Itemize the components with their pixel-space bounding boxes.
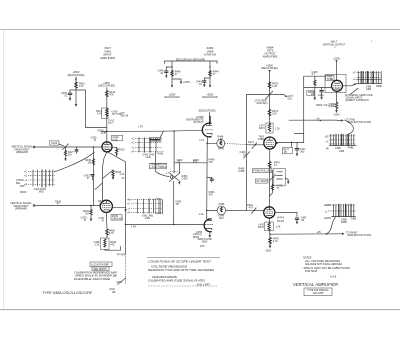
comb drop diagonal (160, 131, 164, 137)
resistor R470 (268, 82, 279, 88)
svg-text:1.2K: 1.2K (276, 226, 281, 229)
svg-text:4.7K: 4.7K (97, 113, 102, 116)
grid wire V454 (126, 223, 204, 225)
delay network comb 1 (131, 137, 164, 159)
svg-text:47X: 47X (193, 160, 198, 163)
ground arrow -150V (265, 246, 272, 253)
grid wire into V473 (248, 144, 264, 146)
svg-text:JUN 1957: JUN 1957 (196, 283, 211, 286)
resistor R410 (75, 82, 86, 88)
input terminal lower (33, 205, 35, 207)
svg-text:6CL6: 6CL6 (277, 219, 285, 223)
plate load below V434 (106, 212, 116, 238)
svg-text:C454: C454 (116, 281, 122, 284)
shield box V483 (325, 75, 346, 93)
damping box L438 (94, 238, 121, 250)
svg-text:2.2K: 2.2K (272, 85, 277, 88)
resistor R440 (171, 71, 181, 77)
deflection comb lower (323, 204, 356, 224)
grid trimmer arrow V474 (247, 204, 256, 214)
svg-text:SN 5XXX: SN 5XXX (193, 121, 204, 124)
header tube label V458 (204, 46, 217, 56)
node +350V decoupled feed B (98, 82, 115, 88)
node dot branch right (209, 66, 210, 67)
branch left ground spur (172, 79, 190, 84)
input attenuator comb (24, 170, 55, 193)
svg-text:47: 47 (87, 177, 90, 180)
svg-text:+C: +C (24, 170, 27, 173)
svg-text:-150V: -150V (333, 113, 340, 116)
svg-text:+R: +R (127, 211, 130, 214)
svg-text:READINGS THAT ARE WITH TIME CE: READINGS THAT ARE WITH TIME CENTERED (148, 269, 214, 272)
comb 1 output drop (156, 152, 169, 176)
svg-text:47: 47 (94, 139, 97, 142)
svg-text:R442: R442 (157, 153, 163, 156)
wire feed B down to V433 (106, 88, 108, 142)
deflection wire lower (270, 231, 345, 235)
svg-text:47: 47 (84, 219, 87, 222)
svg-text:4X: 4X (121, 177, 124, 180)
label R449b (209, 159, 215, 165)
capacitor C409 (61, 90, 72, 98)
triode V454 half tube (204, 218, 213, 231)
branch right arrow end (209, 85, 211, 88)
svg-text:R471: R471 (248, 141, 254, 144)
header tube label V434 (100, 46, 115, 60)
trimmer network R475 (270, 171, 284, 197)
svg-text:+C: +C (325, 140, 328, 143)
svg-text:AMPLIFIER: AMPLIFIER (100, 56, 115, 60)
peaking coil box L476 (258, 222, 281, 231)
svg-text:47K: 47K (209, 161, 214, 164)
junction deflection lower (269, 231, 271, 246)
svg-text:DECOUPLED: DECOUPLED (202, 96, 217, 99)
svg-text:GAIN ADJ: GAIN ADJ (112, 218, 124, 221)
trimmer arrow feed C (255, 91, 273, 105)
svg-text:+A: +A (316, 118, 319, 121)
gain pot R456 (207, 203, 226, 220)
ground arrow feed A (75, 104, 78, 107)
wire to capacitor C409 (70, 89, 76, 91)
node +225V plate cap V483 (333, 57, 340, 80)
svg-text:+L: +L (127, 208, 130, 211)
svg-text:PUSH-PULL BAL: PUSH-PULL BAL (253, 170, 273, 173)
svg-text:-150V: -150V (265, 250, 272, 253)
svg-text:1M: 1M (68, 154, 71, 157)
svg-text:BAL: BAL (16, 182, 21, 185)
svg-text:C482: C482 (318, 94, 324, 97)
decoupling bracket (165, 58, 218, 63)
svg-text:LATER S/N: LATER S/N (204, 53, 217, 56)
svg-text:(DIRECT CONNECT): (DIRECT CONNECT) (346, 99, 370, 102)
cathode chain V473 to V474 (268, 149, 271, 207)
label C412 (108, 120, 114, 126)
svg-text:CONDITIONS OF SCOPE UNDER TEST: CONDITIONS OF SCOPE UNDER TEST (148, 260, 212, 263)
svg-text:47: 47 (101, 132, 104, 135)
junction grid V433 (93, 146, 95, 148)
boxed label gain adj (256, 179, 269, 183)
label R468 (238, 167, 244, 173)
triode V433 (102, 142, 112, 152)
label C456 (175, 201, 181, 207)
label V454 (193, 233, 200, 239)
svg-text:R476: R476 (258, 226, 264, 229)
svg-text:J486: J486 (366, 88, 372, 91)
plate coil L444 (209, 113, 210, 124)
svg-text:47K: 47K (209, 194, 214, 197)
svg-text:DEFLECTION PLATE: DEFLECTION PLATE (348, 234, 372, 237)
svg-text:+C: +C (353, 71, 356, 74)
svg-text:(PREAMP): (PREAMP) (15, 208, 27, 211)
svg-text:47K: 47K (109, 94, 114, 97)
rail to cathode wire (304, 86, 332, 88)
conditions block (147, 245, 220, 286)
interstage wire V444 to V454 (206, 143, 209, 219)
V433 interstage cluster (84, 152, 122, 200)
svg-text:LONG CABLE: LONG CABLE (151, 166, 167, 169)
svg-text:+R45X: +R45X (323, 217, 331, 220)
junction plate V473 (291, 142, 293, 144)
svg-text:.005: .005 (300, 150, 305, 153)
svg-text:R434: R434 (115, 171, 121, 174)
grid wire input line lower (35, 205, 101, 207)
svg-text:R486: R486 (341, 221, 347, 224)
plate wire V473 (275, 141, 303, 143)
input signal label lower (10, 202, 32, 211)
capacitor C450 spur (207, 178, 213, 183)
svg-text:J420: J420 (38, 190, 44, 193)
label +225V decoupled (164, 94, 179, 100)
delay network comb 2 (127, 199, 162, 220)
input signal label upper (11, 146, 33, 155)
svg-text:1 4A: 1 4A (131, 225, 136, 228)
wire crossover to V454 grid line (173, 182, 175, 225)
svg-text:R472: R472 (259, 127, 265, 130)
label this tube V473 (257, 135, 264, 141)
svg-text:TUBE: TUBE (327, 78, 334, 81)
label R426 (50, 141, 64, 146)
svg-text:(PREAMP): (PREAMP) (16, 151, 28, 154)
spur wire to crossover (178, 163, 180, 173)
svg-text:5-25: 5-25 (113, 138, 119, 141)
label net 12A (119, 173, 124, 180)
page left edge (3, 30, 5, 310)
peaking coil box L472 (259, 123, 280, 133)
wire branch cap riser (76, 90, 107, 128)
pentode V434 (100, 200, 112, 212)
svg-text:L442: L442 (146, 156, 152, 159)
svg-text:1 TA: 1 TA (138, 126, 143, 129)
svg-text:LOCATION REF: LOCATION REF (91, 263, 109, 266)
svg-text:+R: +R (24, 184, 27, 187)
svg-text:TYPE 545A OSCILLOSCOPE: TYPE 545A OSCILLOSCOPE (42, 291, 93, 295)
svg-text:TP 4XX: TP 4XX (117, 254, 126, 257)
junction V454 grid (173, 224, 175, 226)
label to the deflection plate (346, 118, 372, 124)
resistor R472 (268, 110, 279, 116)
svg-text:.01: .01 (160, 72, 164, 75)
rail trimmer C468 (239, 151, 249, 158)
svg-text:4.7K: 4.7K (273, 240, 278, 243)
svg-text:A.A.B: A.A.B (329, 276, 337, 279)
triode V444 half tube (202, 123, 213, 137)
junction grid bus (173, 130, 175, 132)
svg-text:+35: +35 (324, 135, 329, 138)
svg-text:47: 47 (102, 220, 105, 223)
label to right deflection plate (346, 231, 372, 237)
junction TP grid line (125, 224, 127, 226)
svg-text:R486: R486 (376, 85, 382, 88)
label C483 (312, 71, 318, 76)
svg-text:+C: +C (24, 175, 27, 178)
ground below C409 (69, 98, 72, 101)
plate wire V474 (275, 212, 297, 216)
header tube label V483 (323, 40, 373, 50)
gain pot R448 (207, 136, 225, 151)
svg-text:*: * (371, 40, 373, 44)
svg-text:1M: 1M (85, 213, 88, 216)
cathode network V434 (98, 208, 126, 223)
location reference boxes (90, 262, 112, 271)
svg-text:J486: J486 (351, 218, 357, 221)
test point TP433 (109, 254, 125, 291)
svg-text:JAN 1955: JAN 1955 (313, 292, 324, 295)
node +350V decoupled feed A (68, 71, 85, 81)
svg-text:+C: +C (131, 142, 134, 145)
grid resistor R429 (81, 206, 93, 223)
label V474 (277, 216, 285, 223)
cathode wire V444 down (206, 137, 208, 145)
dashed link pot to V473 grid (225, 143, 248, 144)
svg-text:(DECOUPLED): (DECOUPLED) (68, 74, 85, 77)
svg-text:.01: .01 (64, 95, 68, 98)
cathode resistor R433 (112, 147, 125, 156)
pentode V473 (264, 137, 279, 149)
svg-text:.01: .01 (198, 83, 202, 86)
node +350V decoupled feed C (261, 65, 278, 73)
spur to horiz amp (270, 95, 294, 101)
svg-text:+L: +L (24, 179, 27, 182)
decoupling branch right wire (209, 61, 211, 85)
label external graticule (346, 88, 374, 102)
capacitor C487 (295, 216, 307, 224)
svg-text:L451: L451 (145, 217, 151, 220)
svg-text:1.2K: 1.2K (94, 243, 99, 246)
svg-text:(DECOUPLED): (DECOUPLED) (261, 67, 278, 70)
label R451 (209, 191, 215, 197)
svg-text:47X: 47X (249, 206, 254, 209)
capacitor C477 (292, 142, 306, 156)
boxed label trimmer kit (150, 163, 167, 169)
svg-text:+R: +R (325, 148, 328, 151)
svg-text:1.5K: 1.5K (218, 138, 223, 141)
svg-text:+C: +C (127, 199, 130, 202)
label C430 (90, 137, 96, 143)
svg-text:+R: +R (353, 83, 356, 86)
svg-text:(DECOUPLED): (DECOUPLED) (98, 85, 115, 88)
junction gain pot upper (206, 143, 208, 145)
plate rail V473 side (304, 76, 325, 142)
svg-text:ARE MADE WITH SIGNAL REMOVED: ARE MADE WITH SIGNAL REMOVED (304, 263, 342, 266)
cable curve to input network (55, 152, 95, 172)
svg-text:J485: J485 (339, 150, 345, 153)
attenuator side labels (16, 179, 26, 192)
label R432 (98, 200, 104, 205)
svg-text:TUBE: TUBE (257, 138, 264, 141)
svg-text:FOR 6DJ8: FOR 6DJ8 (305, 270, 318, 273)
title box (304, 288, 332, 296)
svg-text:+L: +L (132, 147, 135, 150)
svg-text:C17: C17 (108, 122, 113, 125)
label later instruments (186, 116, 204, 124)
svg-text:R485: R485 (348, 146, 354, 149)
neon box B474 (274, 168, 290, 186)
svg-text:VERTICAL AMPLIFIER: VERTICAL AMPLIFIER (293, 282, 338, 287)
output tube V483 (332, 80, 343, 91)
svg-text:4.7K: 4.7K (109, 232, 114, 235)
svg-text:FLEXIBLE MACHINE: FLEXIBLE MACHINE (74, 278, 111, 281)
grid trimmer arrow V473 (248, 141, 257, 148)
deflection comb mid (324, 134, 356, 153)
svg-text:C453: C453 (182, 178, 188, 181)
ground spur crossover (178, 182, 180, 185)
svg-text:(DECOUPLED): (DECOUPLED) (199, 110, 216, 113)
svg-text:CALIBRATED AMPLITUDE SIGNAL PL: CALIBRATED AMPLITUDE SIGNAL PLATES (148, 279, 205, 282)
svg-text:.001: .001 (287, 98, 292, 101)
svg-text:R488: R488 (328, 105, 334, 108)
svg-text:DC SHIFT: DC SHIFT (257, 180, 269, 183)
svg-text:+C: +C (127, 203, 130, 206)
svg-text:R433: R433 (119, 149, 125, 152)
capacitor C440 (158, 67, 172, 78)
wire feed C to V474 rail (247, 95, 270, 211)
svg-text:R483 1.2K: R483 1.2K (316, 104, 328, 107)
svg-text:303-16: 303-16 (121, 115, 129, 118)
junction gain pot lower (206, 210, 208, 212)
svg-text:AB: AB (112, 291, 116, 294)
svg-text:47K: 47K (79, 85, 84, 88)
cathode resistor R488 (328, 91, 340, 116)
svg-text:+225V: +225V (183, 81, 190, 84)
grid bus wire V433 to V444 (101, 130, 203, 131)
svg-text:4XX: 4XX (200, 245, 205, 248)
input compensation cluster (63, 144, 79, 162)
resistor R435 (85, 159, 94, 165)
grid stopper R484 (343, 83, 358, 85)
svg-text:1.2K: 1.2K (275, 128, 280, 131)
screen bypass spur 1 (307, 76, 316, 100)
wire feed A down (75, 80, 77, 104)
junction feed C (269, 94, 271, 96)
output chain below V474 (268, 218, 271, 222)
resistor R478 (269, 238, 280, 244)
svg-text:/ *: / * (334, 47, 336, 50)
interconnect wire upper (173, 131, 175, 173)
boxed label push pull (252, 169, 273, 173)
svg-text:DECOUPLED: DECOUPLED (164, 96, 179, 99)
svg-text:R456: R456 (219, 203, 225, 206)
crossover X (166, 171, 188, 181)
svg-text:1M: 1M (88, 161, 91, 164)
resistor R474 (268, 162, 280, 168)
svg-text:1 4A: 1 4A (199, 213, 204, 216)
svg-text:+L: +L (325, 210, 328, 213)
riser curve to comb 3 (327, 217, 336, 234)
footer type 545 (42, 291, 116, 295)
notes block (302, 257, 350, 279)
node dot branch left (171, 66, 172, 67)
deflection comb upper (353, 71, 383, 91)
riser curve to comb mid (345, 120, 354, 134)
cathode spur V454 (196, 231, 212, 243)
grid wire input line upper (35, 146, 102, 148)
svg-text:+L: +L (353, 78, 356, 81)
label +350V decoupled right (202, 94, 217, 100)
grid wire into V474 (226, 209, 264, 211)
branch left arrow end (171, 85, 173, 88)
svg-text:12K: 12K (272, 113, 277, 116)
resistor R414 (106, 91, 116, 97)
damper box R477 (282, 147, 292, 154)
resistor R444 (209, 71, 219, 77)
header tube label V473 (263, 45, 278, 58)
calibration notes italic (74, 271, 118, 281)
svg-text:C468: C468 (238, 170, 244, 173)
svg-text:+C45X: +C45X (323, 204, 331, 207)
decoupling branch left wire (171, 61, 173, 85)
link bus label wire (174, 159, 207, 164)
svg-text:400V: 400V (202, 240, 208, 243)
svg-text:+C: +C (131, 137, 134, 140)
peaking coil L414 box (96, 108, 129, 119)
page bottom edge (0, 309, 400, 311)
label R418 (98, 130, 107, 136)
wire test point line down (125, 162, 127, 254)
input terminal upper (33, 146, 35, 148)
wire V433 cathode diagonal to test line (107, 152, 126, 162)
junction lower grid (90, 205, 92, 207)
svg-text:+R: +R (131, 151, 134, 154)
svg-text:+225V: +225V (333, 57, 340, 60)
boxed label this tube V483 (326, 75, 334, 81)
pentode V474 (264, 207, 275, 218)
svg-text:ADJ: ADJ (219, 217, 224, 220)
capacitor C444 (196, 78, 210, 87)
svg-text:AMPLIFIER: AMPLIFIER (263, 55, 278, 59)
deflection wire upper (289, 118, 344, 122)
svg-text:DEFLECTION PLATE: DEFLECTION PLATE (348, 121, 372, 124)
svg-text:47K: 47K (110, 243, 115, 246)
svg-text:47: 47 (199, 234, 202, 237)
svg-text:GAIN ADJ: GAIN ADJ (256, 102, 268, 105)
svg-text:1 TA: 1 TA (199, 139, 204, 142)
boxed label C410 (112, 135, 123, 141)
svg-text:C426: C426 (51, 142, 57, 145)
wire junction down to lower stage (92, 147, 94, 206)
svg-text:1K: 1K (311, 93, 314, 96)
svg-text:R449: R449 (218, 148, 224, 151)
page top edge (0, 29, 400, 31)
label R428 (55, 200, 61, 205)
svg-text:DECOUPLING NETWORK: DECOUPLING NETWORK (176, 58, 206, 61)
screen bypass spur 2 (316, 87, 328, 106)
svg-text:+35: +35 (317, 231, 322, 234)
plate feed wire V473 (269, 72, 271, 124)
